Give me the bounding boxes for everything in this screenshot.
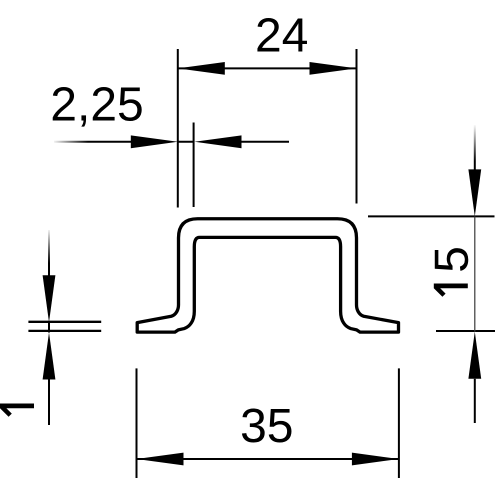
dimension 2,25: left arrowhead pointing right: [131, 135, 178, 148]
dimension 1: connector between arrow tips: [48, 322, 50, 333]
dimension 1: lower tail line: [48, 380, 50, 426]
dimension 35: left extension line: [136, 368, 138, 478]
dimension 15: thin connector line between arrows: [474, 216, 476, 331]
dimension 2,25: right tail line: [242, 141, 290, 143]
dimension 1: upper reference line: [28, 321, 101, 323]
dimension 1: lower reference line: [28, 330, 101, 332]
dimension 24: dimension line: [178, 67, 357, 69]
dimension 15: bottom extension line: [436, 330, 495, 332]
dimension 24: right extension line: [356, 49, 358, 204]
dimension 24: label: [257, 18, 307, 52]
dimension 2,25: right arrowhead pointing left: [195, 135, 242, 148]
dimension 15: label (rotated): [435, 248, 468, 271]
dimension 1: upper tail line (fading): [48, 230, 50, 276]
dimension 1: lower arrowhead pointing up: [43, 333, 56, 380]
dimension 24: left arrowhead: [178, 62, 225, 75]
dimension 15: upper arrowhead pointing down: [468, 169, 481, 216]
dimension 35: right arrowhead: [352, 453, 399, 466]
dimension 2,25: left tail line (fading): [54, 141, 131, 143]
dimension 1: label (rotated): [0, 404, 34, 417]
dimension 1: upper arrowhead pointing down: [43, 275, 56, 322]
dimension 2,25: label: [53, 87, 142, 127]
dimension 35: left arrowhead: [137, 453, 184, 466]
dimension 35: dimension line: [137, 458, 399, 460]
dimension 15: upper tail line (fading): [474, 125, 476, 170]
dimension 35: right extension line: [398, 368, 400, 478]
dimension 24: left extension line: [177, 49, 179, 208]
dimension 2,25: inner extension line: [193, 123, 195, 208]
dimension 15: top extension line: [368, 215, 495, 217]
dimension 15: lower arrowhead pointing up: [468, 332, 481, 379]
dimension 2,25: connector between arrow tips: [178, 141, 195, 143]
profile outline (hat rail cross-section): [137, 219, 398, 332]
dimension 15: lower tail line: [474, 379, 476, 423]
dimension 35: label: [242, 408, 292, 442]
dimension 24: right arrowhead: [310, 62, 357, 75]
